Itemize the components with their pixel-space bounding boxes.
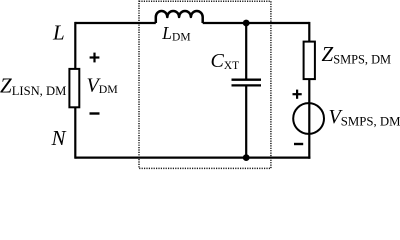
plus sign V_SMPS <box>293 90 302 99</box>
plus sign V_DM <box>90 53 100 63</box>
svg-text:ZSMPS, DM: ZSMPS, DM <box>322 42 392 66</box>
svg-text:VSMPS, DM: VSMPS, DM <box>329 106 400 128</box>
svg-text:LDM: LDM <box>161 23 190 44</box>
resistor box Z_SMPS,DM <box>304 42 315 80</box>
node junction dot bottom (C_XT / bottom wire) <box>243 154 250 161</box>
wire capacitor top stub <box>245 23 247 79</box>
wire capacitor bottom stub <box>245 86 247 157</box>
minus sign V_DM <box>90 112 100 114</box>
resistor box Z_LISN,DM <box>69 69 79 107</box>
wire through source circle <box>308 103 310 134</box>
wire top-right horizontal (inductor to right branch) <box>203 22 310 24</box>
svg-text:VDM: VDM <box>87 74 119 96</box>
svg-text:ZLISN, DM: ZLISN, DM <box>0 73 66 98</box>
wire right vertical upper (top wire to Z_SMPS box) <box>308 22 310 42</box>
node junction dot top (C_XT / top wire) <box>243 20 250 27</box>
wire right vertical lower (source to bottom wire) <box>308 134 310 159</box>
minus sign V_SMPS <box>294 143 303 145</box>
wire bottom horizontal <box>75 157 310 159</box>
voltage source V_SMPS,DM circle <box>293 103 324 134</box>
svg-text:N: N <box>51 126 67 150</box>
inductor L_DM <box>156 11 203 23</box>
wire left vertical lower (Z_LISN box to N) <box>74 107 76 159</box>
wire right vertical middle (Z_SMPS box to source circle) <box>308 79 310 103</box>
wire left vertical upper (L to Z_LISN box) <box>74 22 76 69</box>
dotted filter box <box>139 1 271 168</box>
voltage source internal line <box>308 103 310 134</box>
wire top-left horizontal (L node to inductor) <box>75 22 156 24</box>
svg-text:L: L <box>52 21 65 45</box>
svg-text:CXT: CXT <box>211 50 240 72</box>
capacitor C_XT plates <box>232 79 262 81</box>
